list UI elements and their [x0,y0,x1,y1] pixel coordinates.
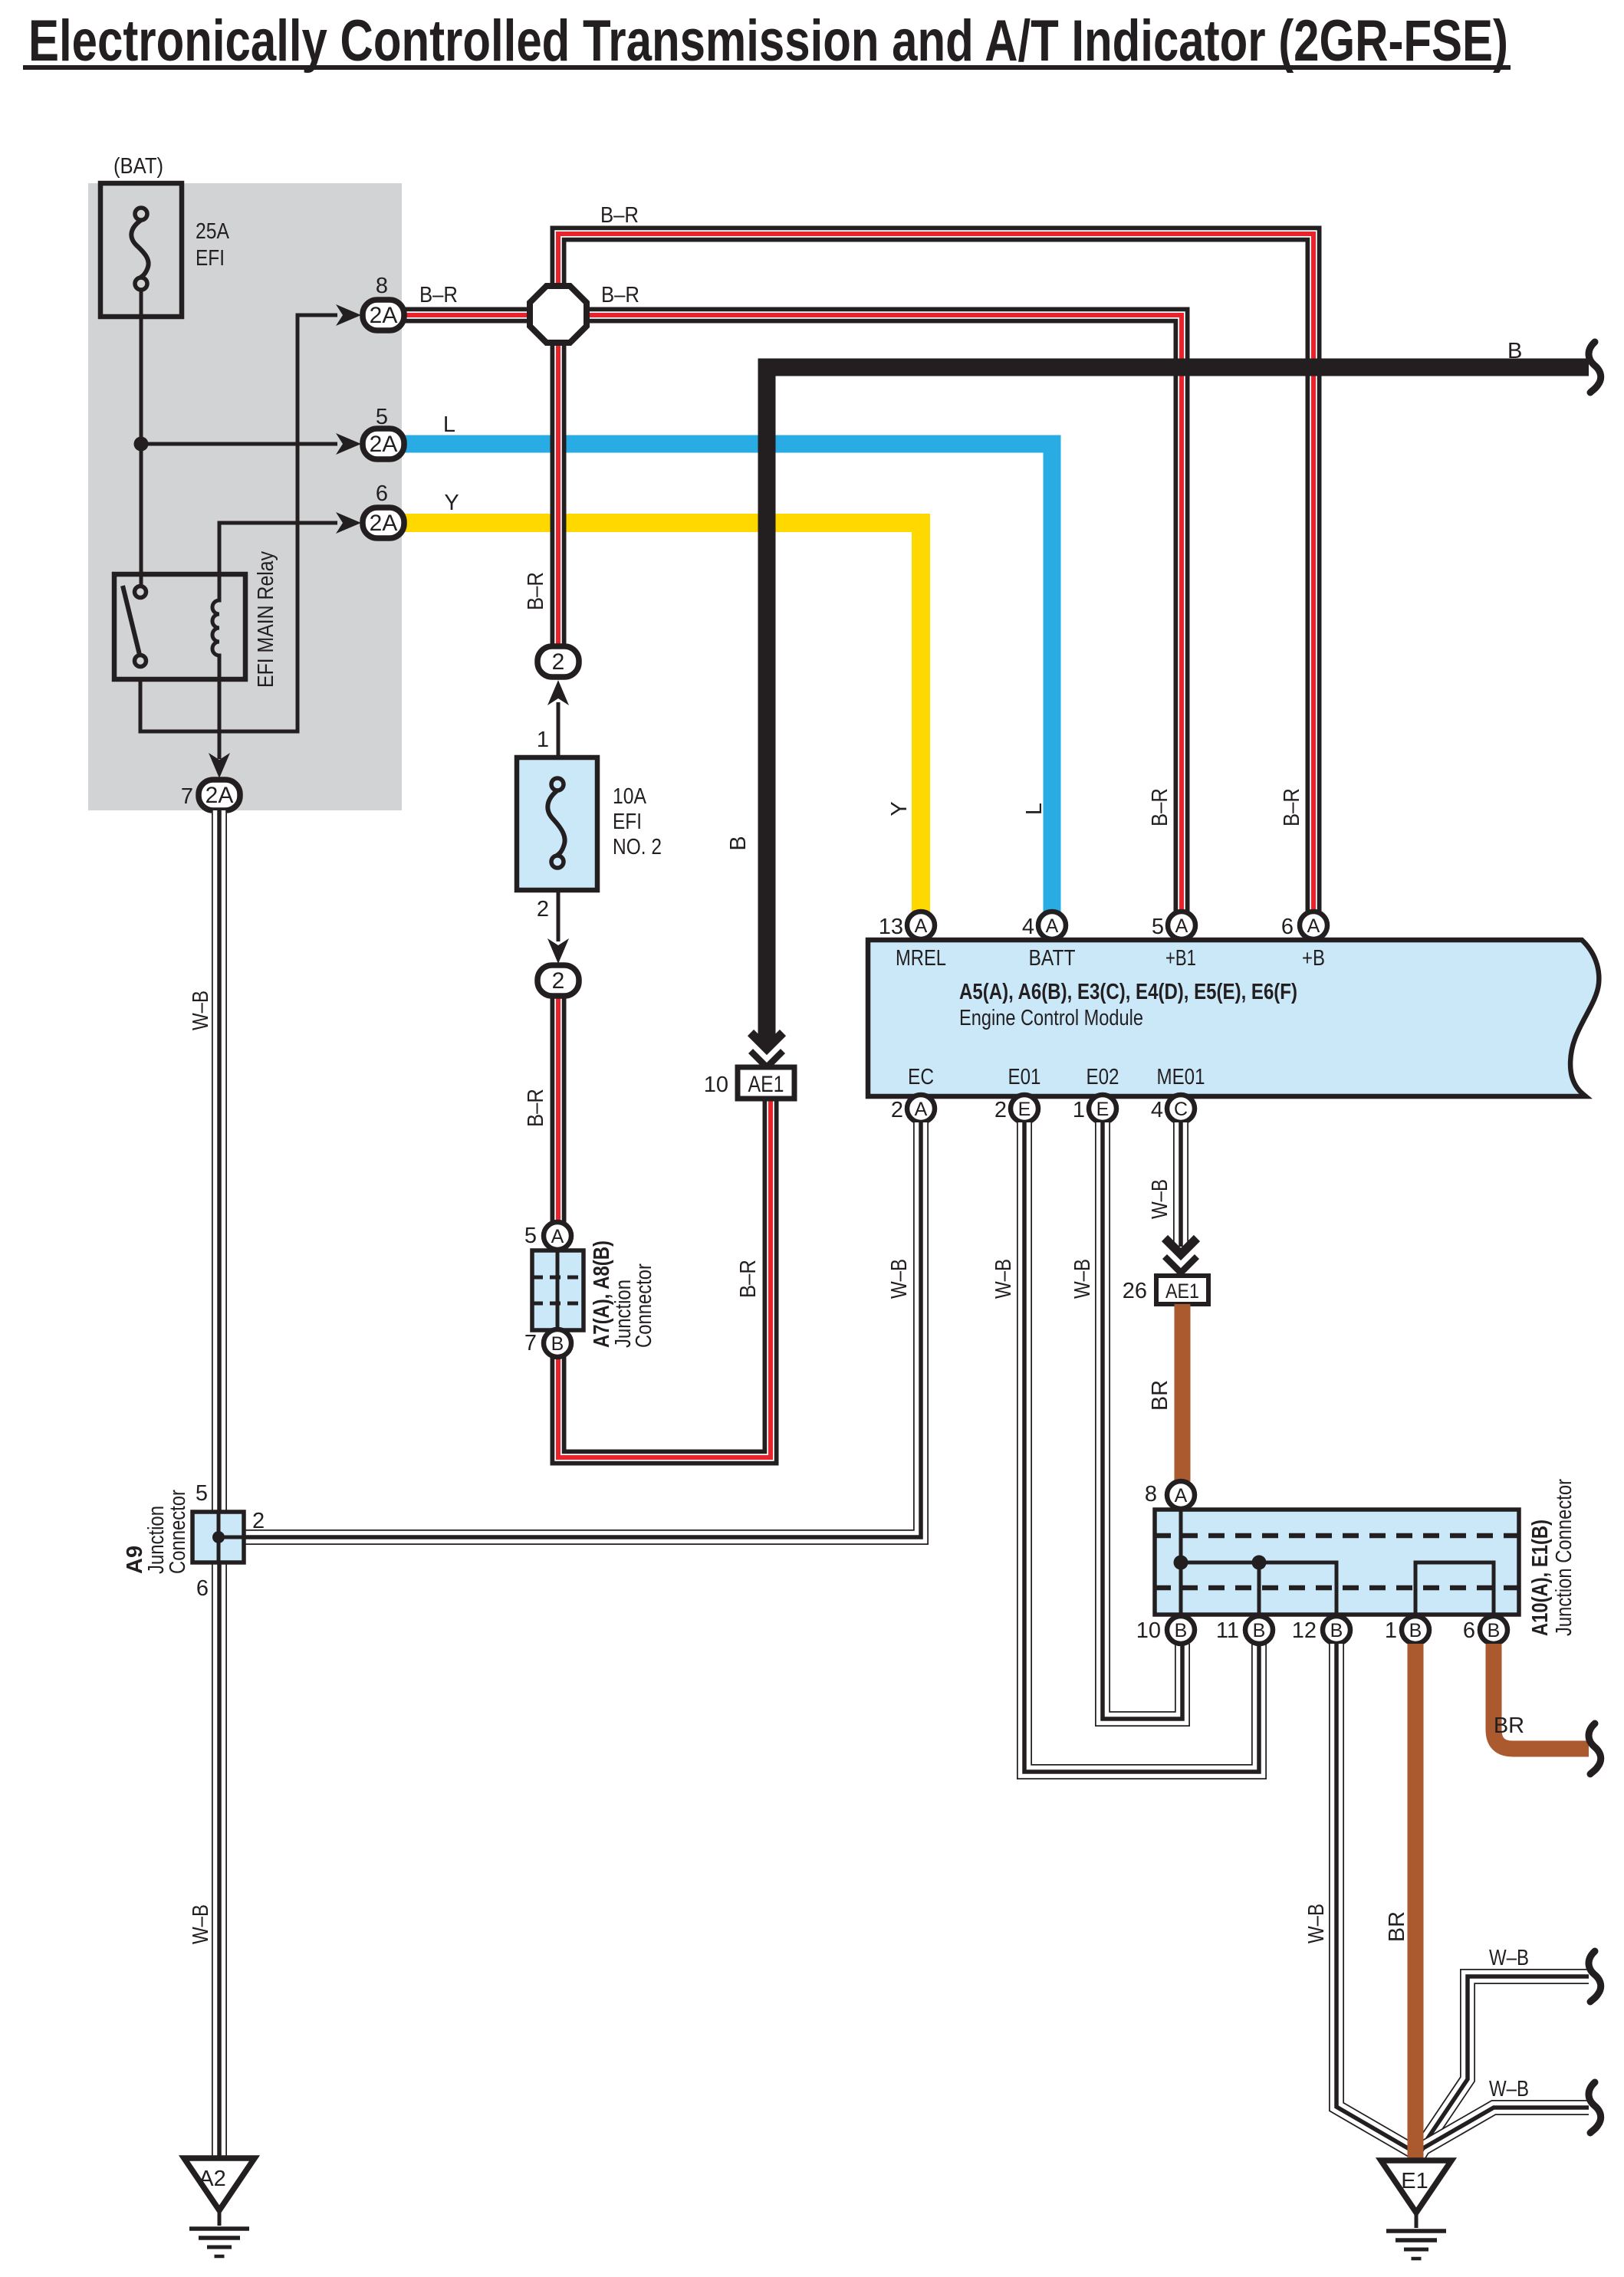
svg-text:Y: Y [887,801,912,816]
svg-text:5: 5 [196,1481,208,1506]
svg-text:B: B [1409,1620,1422,1641]
svg-text:6: 6 [376,481,388,506]
wire feed to pin 8 via relay switch output [140,315,337,731]
svg-text:W–B: W–B [887,1259,912,1299]
svg-text:+B1: +B1 [1165,946,1196,971]
svg-text:A10(A), E1(B): A10(A), E1(B) [1528,1520,1553,1636]
svg-text:1: 1 [1073,1098,1085,1122]
svg-text:EFI: EFI [196,246,225,271]
arrow into AE1 [751,1033,783,1049]
wire BR from pin 1 to ground E1 [1408,1644,1424,2160]
svg-text:4: 4 [1022,915,1034,939]
svg-text:BATT: BATT [1029,946,1076,971]
svg-text:W–B: W–B [991,1259,1016,1299]
svg-text:A: A [1046,915,1059,937]
svg-text:A: A [1307,915,1320,937]
svg-text:W–B: W–B [189,1904,213,1944]
svg-text:2A: 2A [370,432,398,457]
svg-text:B–R: B–R [524,572,548,610]
svg-text:B–R: B–R [1280,788,1304,826]
svg-text:AE1: AE1 [748,1072,784,1097]
svg-text:5: 5 [376,405,388,429]
svg-text:W–B: W–B [1070,1259,1095,1299]
svg-text:NO. 2: NO. 2 [613,835,662,859]
svg-text:1: 1 [1385,1618,1397,1643]
ground A2 [184,2158,255,2210]
wire W-B from E02 to junction pin 10 [1103,1122,1182,1719]
svg-text:A: A [915,915,928,937]
svg-text:11: 11 [1216,1618,1239,1643]
svg-text:EFI: EFI [613,810,642,834]
svg-text:10A: 10A [613,784,647,809]
svg-text:L: L [1022,803,1047,815]
svg-text:ME01: ME01 [1157,1065,1205,1089]
svg-text:B: B [1175,1620,1188,1641]
relay EFI MAIN Relay [114,574,245,679]
svg-text:E01: E01 [1008,1065,1041,1089]
svg-text:C: C [1174,1099,1188,1120]
svg-text:26: 26 [1123,1279,1147,1303]
wire W-B from E01 to junction pin 11 [1024,1122,1259,1772]
svg-text:13: 13 [879,915,903,939]
wire L (blue) from 2A pin 5 to ECM BATT [403,444,1052,912]
wire coil to 2A pin 7 [218,678,222,759]
wire B-R from junction A8 to AE1 [558,1098,771,1457]
fuse 25A EFI [100,183,182,317]
ground E1 [1381,2160,1451,2213]
svg-text:B: B [1507,339,1522,363]
svg-text:6: 6 [196,1576,209,1601]
svg-text:BR: BR [1494,1714,1524,1738]
svg-text:BR: BR [1385,1911,1409,1942]
svg-text:A: A [1175,915,1188,937]
svg-text:A: A [551,1226,564,1247]
svg-text:EFI MAIN Relay: EFI MAIN Relay [254,551,278,688]
wire W-B from ME01 to AE1 [1173,1122,1188,1247]
svg-text:2A: 2A [370,303,398,328]
wire from fuse to relay switch [140,290,143,589]
ECU Engine Control Module box [868,940,1599,1096]
relay coil [212,574,219,679]
svg-text:B–R: B–R [600,203,639,228]
svg-text:6: 6 [1463,1618,1475,1643]
relay switch [123,586,140,658]
svg-text:2: 2 [537,897,549,922]
svg-text:E02: E02 [1087,1065,1119,1089]
svg-text:10: 10 [1136,1618,1161,1643]
svg-text:B: B [1330,1620,1343,1641]
arrow into AE1 26 [1165,1238,1197,1254]
svg-text:A: A [915,1099,928,1120]
svg-text:7: 7 [181,784,193,809]
svg-text:W–B: W–B [1489,2077,1529,2101]
svg-text:AE1: AE1 [1165,1280,1199,1303]
svg-text:Engine Control Module: Engine Control Module [959,1006,1143,1030]
wire BR from pin 6 to break [1494,1644,1589,1749]
svg-text:L: L [443,412,455,437]
svg-text:5: 5 [1152,915,1164,939]
svg-text:8: 8 [376,274,388,298]
wire B-R row 8 run to ECM +B1 [404,315,1182,912]
junction connector A10(A), E1(B) [1155,1510,1519,1615]
svg-text:E: E [1018,1099,1031,1120]
svg-text:W–B: W–B [189,991,213,1030]
wire W-B from 2A pin 7 to ground A2 [212,810,227,2158]
svg-text:2A: 2A [205,783,234,808]
svg-text:W–B: W–B [1148,1179,1172,1219]
wire W-B from pin 12 to ground E1 [1336,1644,1416,2156]
connector 2 lower [537,965,579,996]
svg-text:2: 2 [994,1098,1007,1122]
wire relay coil to pin 6 feed [219,523,337,576]
connector AE1 pin 26 [1156,1276,1208,1304]
svg-text:Y: Y [444,491,459,515]
svg-text:6: 6 [1281,915,1294,939]
svg-text:2: 2 [891,1098,903,1122]
wire B (black) from AE1 up and right to break [767,367,1589,1043]
svg-text:Junction Connector: Junction Connector [1552,1479,1576,1636]
connector 2 upper [537,646,579,677]
svg-text:B: B [726,836,751,850]
svg-text:1: 1 [537,728,549,752]
fuse 10A EFI NO.2 [517,757,597,890]
wire feed to pin 5 [141,442,337,446]
svg-text:7: 7 [524,1331,537,1355]
svg-text:BR: BR [1148,1380,1172,1411]
svg-text:25A: 25A [196,219,230,244]
connector AE1 pin 10 [738,1067,794,1099]
svg-text:+B: +B [1302,946,1325,971]
wire B-R top run to ECM +B [558,234,1313,912]
svg-text:W–B: W–B [1489,1946,1529,1970]
svg-text:B–R: B–R [419,283,458,307]
svg-text:2: 2 [552,968,565,994]
svg-text:12: 12 [1292,1618,1317,1643]
svg-text:B–R: B–R [736,1260,761,1298]
svg-text:E: E [1096,1099,1110,1120]
svg-text:4: 4 [1151,1098,1163,1122]
svg-text:8: 8 [1145,1482,1157,1506]
gray junction block background [88,183,402,810]
svg-text:B: B [551,1333,564,1355]
wire-break B right [1589,342,1601,393]
svg-text:A2: A2 [199,2167,225,2191]
wire BR from AE1 to junction pin 8 [1175,1304,1191,1481]
wire W-B branch 1 to break [1417,1976,1589,2156]
svg-text:B–R: B–R [601,283,639,307]
svg-text:B–R: B–R [1148,788,1172,826]
svg-text:5: 5 [524,1224,537,1248]
svg-text:10: 10 [704,1073,728,1097]
svg-text:Electronically Controlled Tran: Electronically Controlled Transmission a… [28,8,1508,74]
svg-text:B: B [1488,1620,1501,1641]
svg-text:A5(A), A6(B), E3(C), E4(D), E5: A5(A), A6(B), E3(C), E4(D), E5(E), E6(F) [959,980,1297,1004]
svg-text:MREL: MREL [896,946,946,971]
svg-text:2: 2 [552,649,565,675]
connector 2A pin 7 [209,753,230,778]
wire B-R from fuse EFI NO.2 down to junction A7 [551,996,567,1224]
svg-text:A: A [1175,1485,1188,1506]
svg-text:2: 2 [252,1509,265,1533]
wire Y (yellow) from 2A pin 6 to ECM MREL [403,523,921,912]
svg-text:EC: EC [908,1065,934,1089]
svg-text:W–B: W–B [1304,1904,1329,1944]
wire W-B from EC to junction A9 [244,1122,921,1537]
svg-text:B–R: B–R [524,1089,548,1127]
svg-text:B: B [1253,1620,1266,1641]
node B-R 4-way junction (octagon) [530,286,587,343]
svg-text:(BAT): (BAT) [113,154,163,179]
svg-text:2A: 2A [370,511,398,536]
svg-text:Connector: Connector [166,1490,190,1574]
wire W-B branch 2 to break [1419,2108,1589,2156]
node junction dot battery feed [134,437,149,452]
svg-text:E1: E1 [1401,2169,1428,2193]
svg-text:Connector: Connector [632,1263,656,1348]
